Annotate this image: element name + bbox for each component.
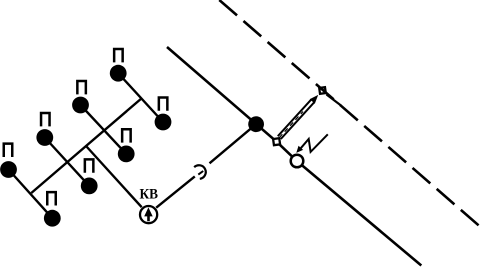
node P7 dot (0, 161, 17, 178)
node S1 square (273, 138, 280, 145)
label P1 (113, 48, 124, 63)
svg-text:КВ: КВ (139, 186, 158, 202)
arc symbol (194, 165, 206, 179)
node O1 circle (291, 155, 304, 168)
raise arrow head (310, 95, 318, 104)
zigzag arrowhead (296, 146, 303, 153)
wire rung A-C (118, 73, 163, 122)
raise arrow shaft edge 2 (278, 99, 312, 136)
wire rung B-E (81, 105, 127, 154)
wire S2 to dashed line (327, 95, 342, 106)
arc tick (198, 171, 203, 175)
label P4 (40, 112, 51, 127)
node B1 dot (248, 116, 264, 132)
wire branch to KV (87, 147, 142, 208)
label P2 (76, 80, 87, 95)
wire diagonal S1 to O1 (277, 142, 298, 162)
node P8 dot (44, 210, 61, 227)
label P5 (121, 128, 132, 143)
node P2 dot (72, 97, 89, 114)
node P5 dot (118, 146, 135, 163)
wire rung H-G (9, 170, 53, 219)
shaft KV circle (140, 206, 157, 223)
node P1 dot (110, 65, 127, 82)
shaft KV arrow (144, 207, 153, 221)
label P7 (3, 142, 14, 157)
node P3 dot (155, 114, 172, 131)
wire KV to arc (156, 176, 195, 207)
wire main diagonal lower (297, 161, 421, 265)
label P3 (158, 96, 169, 111)
wire arc to node B1 (210, 124, 257, 163)
label P8 (46, 191, 57, 206)
dashed boundary line (219, 0, 480, 227)
label P6 (84, 158, 95, 173)
zigzag arrow (300, 134, 328, 152)
wire main diagonal upper (167, 47, 277, 142)
raise arrow shaft edge 1 (281, 102, 315, 139)
node S2 square (319, 87, 326, 94)
node P6 dot (81, 178, 98, 195)
wire main cross line L1 (31, 99, 141, 193)
raise arrow center dashes (279, 112, 303, 138)
wire rung D-F (45, 138, 89, 186)
node P4 dot (36, 129, 53, 146)
